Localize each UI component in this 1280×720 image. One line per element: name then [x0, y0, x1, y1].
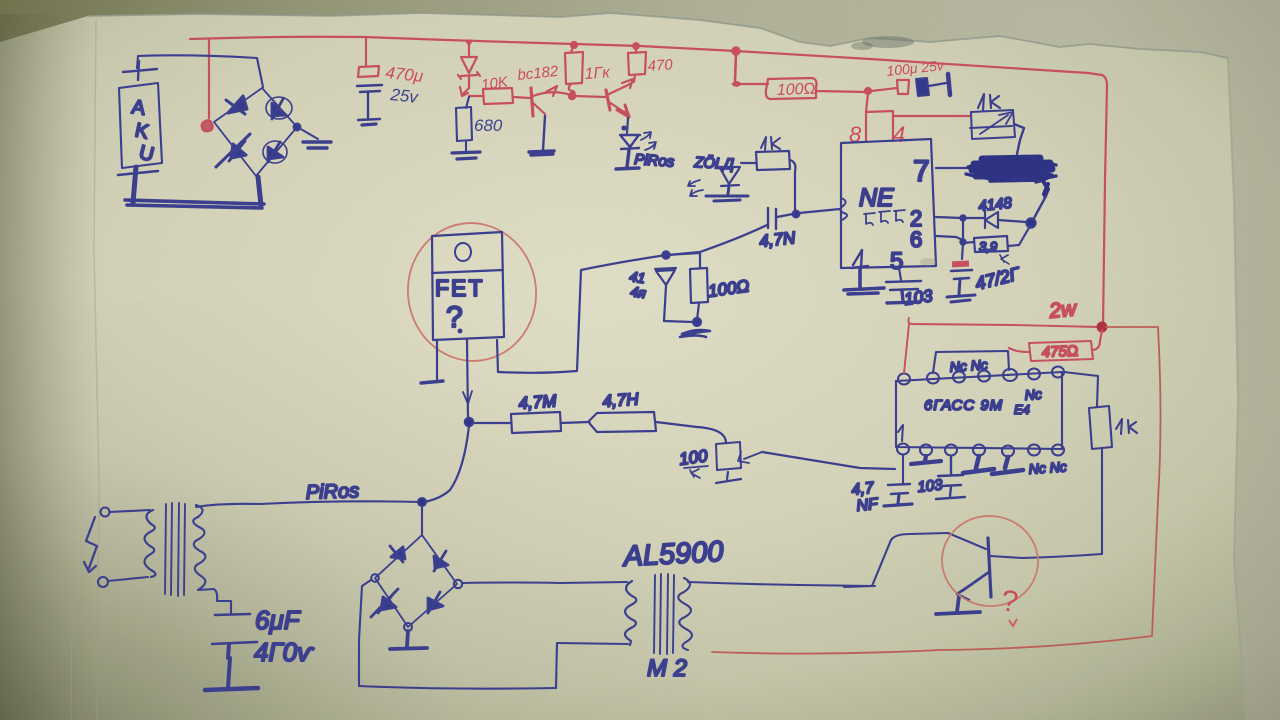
U2 pin2b ground	[911, 456, 941, 464]
node bridge2 left vertex	[371, 574, 379, 582]
wire pin2 to pin6 vertical	[962, 218, 964, 242]
wire C2 to bar	[929, 83, 946, 86]
svg-text:PiRos: PiRos	[305, 480, 359, 504]
resistor R3 1.5K body	[565, 45, 583, 96]
resistor R6 1K body	[756, 151, 790, 170]
U2 top pin row line	[896, 372, 1062, 381]
wire junction to Q2 base	[575, 96, 605, 97]
bridge2 diamond edges	[375, 535, 457, 627]
capacitor C4 103	[886, 281, 921, 290]
svg-text:Nc Nc: Nc Nc	[1028, 458, 1067, 477]
svg-text:680: 680	[474, 116, 503, 135]
wire C3 left to gate node	[668, 225, 767, 255]
capacitor C2 100u minus plate (blue)	[916, 78, 929, 96]
wire U2 top-right pin to 1K	[1064, 372, 1098, 406]
node pin3/1K/cap junction	[793, 211, 800, 218]
T2 secondary coil	[678, 578, 692, 650]
label 1K	[761, 137, 780, 150]
wire to 100ohm resistor	[739, 83, 768, 85]
wire R10 to pot	[656, 422, 726, 443]
U2 pin2-pin5 top bridge wire	[933, 351, 1009, 373]
node 100u junction dot	[865, 88, 871, 94]
red circle around FET	[399, 215, 545, 369]
wire pin7 to blob	[936, 167, 973, 169]
svg-text:NF: NF	[856, 496, 880, 515]
wire node to pin3	[799, 209, 840, 213]
wire loop bottom run	[359, 686, 556, 689]
node rail junction zener	[468, 41, 470, 55]
capacitor C5 47/25 blue plates	[951, 270, 972, 279]
svg-text:4,7N: 4,7N	[758, 228, 796, 251]
ground gate node scribble	[680, 330, 710, 337]
node bridge2 bottom vertex	[404, 623, 412, 631]
svg-text:7: 7	[913, 155, 930, 188]
wire loop up to T2	[556, 643, 557, 688]
wire T1 bottom to C6	[198, 589, 231, 613]
resistor R8 3.9K body	[963, 226, 1030, 252]
battery AKU plus terminal	[123, 61, 157, 80]
wire red frame left drop to U2	[904, 324, 909, 373]
svg-text:М 2: М 2	[647, 655, 687, 682]
wire bridge1 to ground	[299, 128, 318, 139]
node bridge1 DC+	[294, 124, 301, 131]
U2 pin1 label	[898, 425, 903, 441]
zener diode ZD1	[458, 57, 480, 96]
torn edge gray smudge	[862, 36, 914, 48]
wire bridge2 right to T2 primary top	[462, 582, 627, 583]
P2 bottom lead	[716, 472, 741, 483]
LED zold arrows	[688, 180, 703, 196]
wire node to C2	[871, 88, 897, 91]
blob scribble (scratched component)	[972, 158, 1052, 176]
capacitor C5 47/25 red plate	[952, 261, 969, 268]
wire red drop to bridge1 AC node	[208, 40, 210, 118]
U1 pin 3 squiggle	[840, 198, 847, 220]
resistor R5 100ohm body	[766, 78, 817, 99]
svg-text:6: 6	[910, 227, 922, 252]
potentiometer P1 label 1K	[978, 94, 1000, 110]
Q3 emitter ground	[936, 596, 980, 614]
capacitor C1 lead and ground	[358, 92, 380, 120]
svg-text:1Гк: 1Гк	[584, 64, 612, 83]
bridge2 diode D10 top-right	[434, 551, 448, 571]
wire T2 secondary top to Q3 base	[688, 533, 986, 586]
U2 pin3b cap 103	[936, 456, 965, 499]
wire stub to capacitor C1	[365, 38, 367, 65]
node gate junction dot	[662, 251, 669, 258]
FET left pin bar	[421, 381, 443, 383]
LED piros lead2 + ground	[616, 150, 639, 169]
U2 bottom pin circles	[897, 444, 909, 455]
Q3 emitter with arrow	[957, 572, 989, 600]
wire piros node to bridge2 top	[421, 506, 423, 534]
C6 lead + ground	[228, 644, 230, 688]
transformer T2 M2 primary coil	[625, 581, 636, 645]
svg-text:470μ: 470μ	[385, 63, 425, 86]
wire Q1 emitter to ground (blue)	[543, 116, 545, 150]
node bridge1 AC red blob	[202, 120, 213, 131]
svg-text:Nc Nc: Nc Nc	[949, 356, 988, 375]
wire rail dot down to 100ohm	[733, 53, 740, 86]
wire T1 bottom terminal to coil	[108, 577, 148, 581]
LED piros arrows	[641, 132, 656, 150]
diode D8 4148	[963, 211, 1026, 228]
transformer T1 terminal bottom	[98, 577, 108, 587]
left strip shading	[0, 14, 100, 720]
capacitor C3 4.7N plates	[768, 208, 776, 229]
transistor Q2 (red)	[606, 90, 610, 110]
transistor Q3 bar	[988, 538, 991, 597]
svg-text:25v: 25v	[389, 85, 421, 107]
U2 pin4b ground	[963, 456, 994, 473]
T1 primary coil	[144, 510, 155, 577]
node 3.9K left junction	[960, 239, 965, 244]
battery AKU minus lead	[133, 167, 136, 203]
svg-text:4148: 4148	[978, 195, 1014, 215]
R12 left lead	[1009, 348, 1029, 352]
wire drain node down to piros node	[424, 426, 469, 502]
svg-text:100Ω: 100Ω	[777, 81, 817, 99]
bridge1 diode D3 bottom-left	[216, 134, 250, 167]
LED D5 piros	[620, 135, 640, 149]
C7 lead + ground	[884, 494, 912, 506]
transistor FET box	[432, 232, 504, 340]
svg-text:103: 103	[903, 286, 934, 309]
wire T1 to piros node	[196, 501, 422, 507]
capacitor C2 outer bar	[948, 74, 950, 95]
wire P2 wiper to IC pin1	[762, 452, 895, 469]
wire red bottom run	[712, 636, 1152, 654]
blob tail	[1043, 181, 1048, 196]
node FET drain junction dot	[465, 418, 473, 426]
node Q1 collector junction dot	[569, 93, 575, 99]
LED zold lead + ground	[706, 186, 748, 201]
wire long base run from AL5900 area	[844, 586, 875, 587]
transistor Q2 emitter arrow	[617, 105, 629, 117]
node below 100ohm	[693, 318, 701, 326]
capacitor C1 minus plates (blue)	[357, 85, 382, 92]
U1 pin 1 glyph	[851, 250, 868, 268]
wire bottom negative rail	[125, 200, 264, 208]
U2 pin5b ground	[992, 457, 1023, 474]
bridge1 diamond edges	[214, 88, 297, 176]
node diode right big dot	[1026, 218, 1035, 227]
ground Q1	[529, 151, 554, 155]
wire pot to blob	[1014, 124, 1024, 154]
ground bridge1	[303, 142, 331, 148]
resistor R1 680 body	[456, 97, 472, 152]
resistor R7 100ohm body	[666, 253, 708, 320]
wire top +V rail	[190, 37, 1107, 327]
bridge1 diode D2 circle	[266, 97, 292, 119]
label 1K right	[1116, 419, 1137, 434]
svg-text:470: 470	[647, 56, 674, 75]
capacitor C1 470u plus plate (red)	[358, 66, 379, 77]
transformer T1 terminal top	[101, 508, 110, 517]
diode D7 4148 gate	[655, 268, 676, 321]
T1 lightning arrow	[84, 517, 97, 572]
svg-text:FET: FET	[435, 275, 484, 301]
resistor R4 470 body	[628, 46, 646, 82]
red circle around Q3	[938, 511, 1043, 611]
wire T1 top terminal to coil	[110, 510, 150, 512]
op-amp U1 NE555 box	[841, 139, 936, 268]
wire 1K left to LED zold	[741, 162, 756, 164]
svg-text:6μF: 6μF	[255, 605, 302, 635]
svg-text:Nc: Nc	[1024, 386, 1042, 403]
torn top edge line	[88, 13, 1228, 58]
op-amp U2 6GACC9M box	[896, 372, 1062, 449]
ground bridge2	[390, 631, 427, 649]
wire loop to T2 primary bottom	[557, 643, 628, 644]
resistor R11 1K body	[1089, 406, 1112, 449]
node zener/680/10K junction	[469, 95, 483, 97]
bridge1 diode D2 top-right	[272, 99, 286, 119]
wire red supply to 1K pot	[894, 115, 970, 117]
potentiometer P1 1K box	[970, 110, 1015, 139]
svg-text:ZÖLД: ZÖLД	[693, 153, 735, 173]
battery AKU box	[119, 83, 162, 168]
node rail junction main dot	[732, 47, 739, 54]
node red 2W junction dot	[1098, 323, 1107, 332]
bridge1 diode D4 circle	[263, 141, 287, 163]
wire diode to node	[664, 321, 693, 322]
FET middle pin arrowhead	[463, 391, 472, 404]
svg-text:103: 103	[917, 476, 944, 496]
wire red right vertical	[1152, 327, 1161, 636]
label 555	[864, 210, 905, 225]
FET middle pin (drain)	[467, 340, 468, 418]
smudge near C5	[920, 258, 936, 266]
FET left pin	[436, 340, 438, 379]
capacitor C5 lead + ground	[947, 279, 975, 302]
wire red junction to right edge	[1106, 326, 1158, 328]
wire FET gate run right	[498, 255, 666, 373]
svg-text:2w: 2w	[1047, 297, 1079, 323]
svg-text:NE: NE	[859, 184, 894, 212]
paper crease faint middle-bottom	[71, 600, 72, 720]
T1 secondary coil	[193, 505, 205, 590]
node rail junction 470	[633, 43, 639, 49]
svg-text:4,7М: 4,7М	[518, 391, 558, 413]
svg-text:4я: 4я	[630, 283, 648, 301]
svg-text:АL5900: АL5900	[621, 536, 725, 573]
node rail junction 1.5K	[571, 42, 577, 48]
wire pin6	[936, 236, 963, 240]
transistor Q1 BC182 (red)	[531, 88, 533, 116]
node dot above LED	[622, 126, 625, 129]
node bridge2 right vertex	[454, 580, 462, 588]
wire pin5 down	[899, 268, 901, 280]
svg-text:4Г0ѵ: 4Г0ѵ	[254, 637, 315, 667]
wire blob to node	[1033, 196, 1046, 220]
wire bridge2 left loop down	[359, 580, 371, 686]
Q3 collector	[990, 554, 1102, 558]
bridge2 diode D9 top-left	[390, 546, 405, 562]
bridge1 diode D4 bottom-right	[268, 142, 283, 162]
potentiometer P2 wiper arrow	[738, 452, 762, 463]
svg-text:4: 4	[893, 122, 905, 147]
wire 1K down to Q3 collector	[1101, 449, 1103, 553]
FET right pin	[497, 340, 498, 372]
paper crease left	[94, 20, 99, 720]
ground C1 bar	[362, 124, 376, 125]
ground 680	[452, 152, 480, 159]
LED D6 zold	[719, 167, 740, 186]
svg-text:4,7H: 4,7H	[602, 389, 640, 411]
FET mounting hole	[455, 243, 471, 261]
svg-text:5: 5	[890, 248, 903, 275]
resistor R9 4.7N body	[511, 412, 561, 433]
svg-text:475Ω: 475Ω	[1042, 343, 1079, 361]
resistor R2 10K body	[483, 88, 513, 104]
capacitor C6 6uF plates	[212, 614, 257, 644]
U2 top pin circles	[898, 374, 910, 385]
right paper edge	[1228, 58, 1246, 720]
wire U2 pin1 down to cap	[902, 455, 904, 484]
ground U1 pin1	[844, 268, 884, 294]
node pin2 junction	[960, 215, 965, 220]
wire 100ohm to node	[816, 91, 867, 92]
svg-text:PiRos: PiRos	[634, 151, 676, 171]
svg-text:3,9: 3,9	[979, 239, 997, 254]
resistor R10 4.7H body	[589, 412, 656, 432]
wire node down to cap 47/25	[962, 243, 963, 259]
T1 core lines	[165, 503, 185, 596]
T2 core lines	[654, 574, 674, 654]
capacitor C2 100u plus plate	[897, 80, 909, 94]
wire 10K to Q1 base	[513, 97, 530, 98]
ground C4	[887, 291, 920, 303]
capacitor C7 4.7NF	[888, 484, 910, 494]
wire pin2	[936, 217, 962, 218]
resistor R12 475ohm body	[1029, 341, 1093, 361]
wire R9 to R10	[561, 422, 589, 423]
battery minus bar	[118, 171, 158, 175]
R12 right lead	[1093, 330, 1102, 350]
node piros junction dot	[418, 498, 426, 506]
svg-text:Е4: Е4	[1014, 402, 1030, 417]
wire C3 to node	[777, 214, 793, 217]
bridge1 diode D1 top-left	[226, 96, 247, 114]
potentiometer P1 wiper arrow	[980, 112, 1013, 134]
bridge2 diode D12 bottom-right	[428, 592, 443, 613]
wire bridge1 bottom lead	[258, 177, 261, 205]
LED piros lead	[627, 118, 628, 133]
wire AKU+ to bridge1 top	[137, 55, 263, 87]
bridge2 diode D11 bottom-left	[371, 589, 398, 617]
wire red frame top run	[908, 318, 1099, 327]
wire node down to pins 8/4	[866, 93, 893, 141]
wire drain node to 4.7N resistor	[473, 422, 511, 424]
potentiometer P2 100K box	[716, 442, 741, 470]
svg-text:6ГАСС 9М: 6ГАСС 9М	[924, 397, 1003, 414]
wire 1K right down to node	[790, 160, 795, 211]
